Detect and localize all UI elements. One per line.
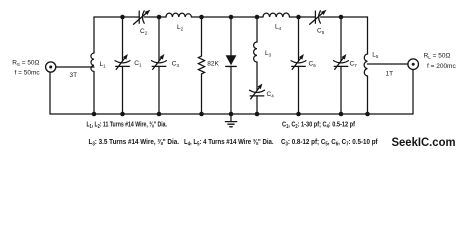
svg-text:RL = 50Ω: RL = 50Ω (424, 53, 451, 60)
svg-text:L1, L2: 11 Turns #14 Wire, ⅜": L1, L2: 11 Turns #14 Wire, ⅜" Dia. (87, 120, 168, 131)
svg-text:C1: C1 (134, 60, 142, 67)
svg-text:3T: 3T (70, 72, 78, 79)
svg-text:L1: L1 (100, 61, 107, 68)
svg-text:C4: C4 (267, 91, 275, 98)
svg-text:C1, C2: 1-30 pf; C4: 0.5-12 pf: C1, C2: 1-30 pf; C4: 0.5-12 pf (282, 120, 355, 131)
svg-text:L4, L5: 4 Turns #14 Wire ⅜" Di: L4, L5: 4 Turns #14 Wire ⅜" Dia. (184, 137, 274, 148)
svg-text:RS = 50Ω: RS = 50Ω (12, 60, 39, 67)
svg-text:C3: 0.8-12 pf; C5, C6, C7: 0.5: C3: 0.8-12 pf; C5, C6, C7: 0.5-10 pf (281, 137, 378, 148)
svg-text:L5: L5 (372, 52, 379, 59)
svg-text:C2: C2 (140, 28, 148, 35)
svg-text:f = 200mc: f = 200mc (427, 63, 456, 70)
svg-text:L3: L3 (265, 50, 272, 57)
svg-text:C5: C5 (317, 28, 325, 35)
svg-text:SeekIC.com: SeekIC.com (392, 135, 456, 149)
svg-text:C3: C3 (172, 61, 180, 68)
svg-text:1T: 1T (386, 71, 394, 78)
svg-text:f = 50mc: f = 50mc (15, 70, 41, 77)
svg-text:L3: 3.5 Turns #14 Wire, ⅜" Dia: L3: 3.5 Turns #14 Wire, ⅜" Dia. (89, 137, 180, 148)
svg-text:C7: C7 (350, 61, 358, 68)
svg-text:C6: C6 (309, 61, 317, 68)
svg-text:82K: 82K (207, 60, 219, 67)
svg-text:L4: L4 (275, 24, 282, 31)
svg-text:L2: L2 (177, 24, 184, 31)
